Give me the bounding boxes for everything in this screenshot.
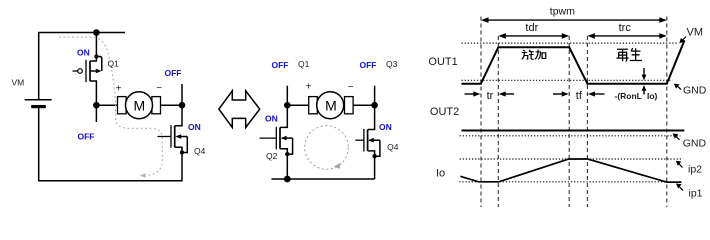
svg-text:Q1: Q1 bbox=[108, 59, 120, 69]
svg-text:VM: VM bbox=[12, 78, 25, 88]
svg-text:+: + bbox=[306, 82, 312, 93]
svg-text:tr: tr bbox=[487, 90, 494, 102]
svg-text:OFF: OFF bbox=[78, 132, 95, 142]
svg-text:ON: ON bbox=[265, 113, 278, 123]
svg-text:GND: GND bbox=[683, 84, 707, 96]
svg-text:ON: ON bbox=[188, 122, 201, 132]
svg-text:-(RonL: -(RonL bbox=[615, 91, 642, 101]
svg-text:Io): Io) bbox=[647, 91, 658, 101]
svg-text:Q3: Q3 bbox=[386, 59, 398, 69]
svg-text:ip2: ip2 bbox=[688, 164, 702, 176]
svg-text:M: M bbox=[325, 97, 337, 113]
svg-text:ip1: ip1 bbox=[689, 187, 703, 199]
svg-text:OFF: OFF bbox=[360, 60, 377, 70]
svg-text:M: M bbox=[133, 97, 145, 113]
svg-text:Q4: Q4 bbox=[194, 146, 206, 156]
svg-text:Q2: Q2 bbox=[266, 151, 278, 161]
svg-text:Q1: Q1 bbox=[298, 59, 310, 69]
svg-text:GND: GND bbox=[683, 138, 707, 150]
svg-text:tdr: tdr bbox=[525, 22, 538, 34]
svg-text:−: − bbox=[156, 83, 162, 94]
svg-text:OFF: OFF bbox=[272, 60, 289, 70]
svg-text:+: + bbox=[116, 84, 122, 95]
svg-text:tf: tf bbox=[576, 90, 583, 102]
svg-text:OUT1: OUT1 bbox=[428, 56, 457, 68]
svg-text:OUT2: OUT2 bbox=[430, 106, 459, 118]
svg-text:VM: VM bbox=[687, 27, 704, 39]
svg-text:ON: ON bbox=[77, 48, 90, 58]
svg-text:trc: trc bbox=[619, 22, 632, 34]
svg-text:−: − bbox=[348, 82, 354, 93]
svg-text:Io: Io bbox=[436, 167, 445, 179]
svg-text:Q4: Q4 bbox=[387, 142, 399, 152]
svg-text:OFF: OFF bbox=[165, 68, 182, 78]
svg-text:ON: ON bbox=[379, 122, 392, 132]
svg-text:tpwm: tpwm bbox=[550, 6, 575, 18]
